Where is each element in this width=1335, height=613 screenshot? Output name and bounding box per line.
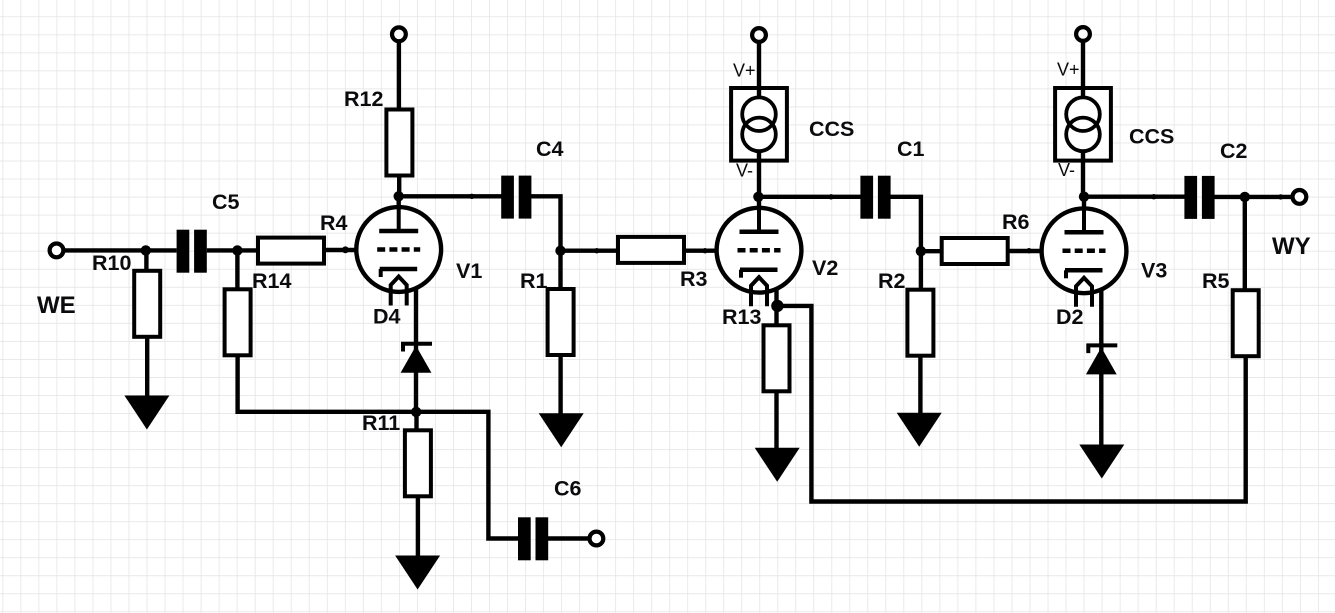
svg-text:D4: D4 (373, 305, 401, 329)
svg-text:WY: WY (1272, 233, 1311, 260)
svg-text:R4: R4 (320, 211, 348, 235)
svg-text:CCS: CCS (809, 117, 854, 141)
svg-text:V-: V- (736, 161, 753, 181)
svg-text:R10: R10 (92, 251, 131, 275)
svg-text:V+: V+ (1057, 60, 1080, 80)
svg-text:C5: C5 (212, 190, 240, 214)
svg-text:D2: D2 (1056, 305, 1084, 329)
svg-text:R12: R12 (344, 87, 383, 111)
svg-text:CCS: CCS (1129, 125, 1174, 149)
svg-text:R6: R6 (1002, 210, 1030, 234)
svg-text:R2: R2 (878, 269, 906, 293)
svg-text:V-: V- (1058, 160, 1075, 180)
svg-text:C2: C2 (1220, 139, 1248, 163)
svg-text:V+: V+ (733, 61, 756, 81)
svg-text:C4: C4 (536, 137, 564, 161)
svg-text:C1: C1 (897, 137, 925, 161)
svg-text:WE: WE (37, 292, 76, 319)
svg-text:R11: R11 (362, 411, 400, 435)
svg-text:R1: R1 (520, 269, 548, 293)
svg-text:V1: V1 (456, 259, 482, 283)
svg-text:C6: C6 (554, 477, 582, 501)
svg-text:R3: R3 (680, 267, 708, 291)
svg-text:R14: R14 (252, 269, 291, 293)
svg-text:V3: V3 (1141, 259, 1167, 283)
svg-text:V2: V2 (812, 256, 838, 280)
svg-text:R5: R5 (1202, 269, 1230, 293)
svg-text:R13: R13 (722, 305, 761, 329)
